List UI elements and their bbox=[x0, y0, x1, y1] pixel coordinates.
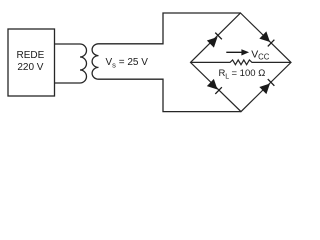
svg-text:REDE: REDE bbox=[17, 50, 45, 61]
svg-text:CC: CC bbox=[258, 53, 270, 62]
svg-text:= 100 Ω: = 100 Ω bbox=[232, 68, 266, 79]
svg-text:220 V: 220 V bbox=[17, 62, 43, 73]
svg-text:Vs = 25 V: Vs = 25 V bbox=[106, 57, 149, 70]
svg-text:L: L bbox=[225, 73, 229, 80]
